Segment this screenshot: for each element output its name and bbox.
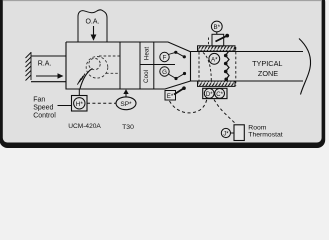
svg-text:Control: Control — [33, 112, 56, 119]
valve F linkage — [168, 52, 184, 57]
belt tick marks — [77, 74, 85, 85]
valve G — [160, 67, 169, 76]
dashed wire E* to D* — [170, 100, 207, 113]
actuator dashed link — [208, 38, 210, 46]
damper dashed frame — [198, 52, 200, 81]
sensor B* — [211, 21, 222, 32]
H* circle — [74, 98, 85, 109]
svg-text:Heat: Heat — [144, 47, 151, 61]
sensor SP* — [116, 97, 136, 110]
svg-text:B*: B* — [214, 24, 221, 31]
svg-text:SP*: SP* — [120, 101, 132, 108]
actuator arm — [216, 36, 227, 42]
svg-text:R.A.: R.A. — [38, 61, 52, 68]
damper actuator E* box — [165, 91, 176, 101]
AHU cabinet outline — [66, 42, 191, 89]
valve F — [160, 52, 169, 61]
diffuser zigzag — [226, 52, 230, 80]
wire fan to H* — [78, 89, 80, 96]
sensors D* C* box — [203, 88, 227, 98]
R.A. duct walls — [31, 56, 66, 82]
svg-text:A*: A* — [211, 56, 218, 63]
zone boundary dashed — [235, 47, 237, 86]
svg-text:H*: H* — [76, 101, 84, 108]
svg-text:G: G — [162, 69, 167, 76]
damper actuator box — [212, 34, 224, 46]
svg-text:T30: T30 — [122, 124, 134, 131]
wire label to H* — [58, 105, 72, 107]
svg-text:J*: J* — [223, 131, 229, 137]
svg-text:O.A.: O.A. — [85, 19, 99, 26]
R.A. wall hatch — [26, 52, 32, 81]
svg-text:D*: D* — [206, 92, 213, 98]
fan (dashed scroll) — [86, 56, 119, 78]
R.A. flow arrow — [36, 73, 64, 79]
svg-text:F: F — [163, 55, 167, 62]
svg-text:ZONE: ZONE — [258, 69, 278, 78]
SP* arrow to AHU — [123, 89, 128, 97]
svg-text:Cool: Cool — [143, 70, 150, 83]
room thermostat — [234, 125, 244, 141]
VAV box top insulation bar — [198, 46, 236, 51]
O.A. duct — [78, 10, 107, 42]
VAV box bottom insulation bar — [198, 81, 236, 86]
dashed wire H* to SP* — [87, 102, 116, 104]
E* arm — [174, 88, 184, 94]
svg-text:Fan: Fan — [33, 97, 45, 104]
svg-text:TYPICAL: TYPICAL — [252, 59, 282, 68]
svg-text:Thermostat: Thermostat — [248, 132, 282, 139]
svg-text:E*: E* — [167, 93, 174, 100]
svg-text:C*: C* — [216, 92, 223, 98]
coil strip left line — [139, 42, 141, 89]
sensor A* — [209, 53, 220, 64]
D* circle — [204, 89, 214, 99]
svg-text:Speed: Speed — [33, 105, 53, 112]
damper swing arc — [203, 53, 211, 81]
supply duct bottom wall — [191, 80, 304, 82]
svg-text:Room: Room — [248, 124, 266, 131]
svg-text:UCM-420A: UCM-420A — [68, 123, 101, 130]
supply duct top wall — [191, 51, 304, 53]
heat/cool divider — [140, 64, 175, 66]
coil strip right line — [153, 42, 155, 89]
sensor J* — [221, 128, 230, 137]
C* circle — [215, 89, 225, 99]
duct break curve — [299, 39, 311, 95]
wire B* to actuator — [216, 32, 218, 34]
wire J* to thermostat — [231, 132, 235, 134]
valve G linkage — [168, 74, 184, 79]
O.A. flow arrow — [91, 26, 97, 41]
dashed wire C* to thermostat — [214, 100, 236, 125]
controller H* box — [72, 96, 88, 112]
AHU divider — [119, 42, 121, 89]
fan belt line — [80, 69, 93, 89]
